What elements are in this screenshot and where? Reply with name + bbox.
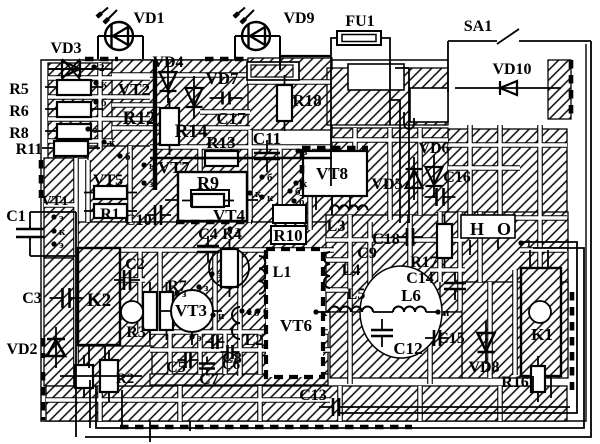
relay K1 body box (521, 268, 561, 376)
svg-text:VT3: VT3 (175, 301, 207, 320)
wire K2 bottom leads (89, 345, 122, 428)
wire left outer (75, 212, 77, 437)
node dashed VT8 left edge (300, 150, 305, 196)
svg-text:VT2: VT2 (118, 80, 150, 99)
svg-text:6: 6 (263, 306, 269, 318)
svg-text:з: з (303, 146, 308, 158)
resistor R16 body (531, 366, 545, 392)
island top-left block (48, 63, 150, 158)
svg-text:1: 1 (247, 306, 253, 318)
svg-text:VD8: VD8 (468, 359, 499, 376)
capacitor C13 (319, 398, 353, 416)
svg-text:VD7: VD7 (205, 69, 239, 88)
svg-text:R1: R1 (100, 206, 120, 223)
inductor L6 (393, 307, 426, 312)
svg-text:C16: C16 (443, 169, 471, 186)
wire C1 bracket (30, 212, 76, 256)
svg-text:VT1: VT1 (42, 194, 68, 209)
wire center band bar (150, 157, 332, 159)
LED VD1 (97, 8, 133, 51)
svg-text:б: б (101, 97, 107, 109)
wire R2 row (60, 375, 142, 377)
svg-text:VT6: VT6 (280, 316, 312, 335)
svg-text:з: з (93, 124, 98, 136)
node pin и (210, 312, 215, 317)
svg-text:VD10: VD10 (492, 61, 531, 78)
svg-text:R16: R16 (501, 374, 529, 391)
resistor R17 body (437, 224, 452, 258)
capacitor C12 white zone (360, 266, 442, 358)
node dashed left edge A (39, 160, 44, 198)
svg-text:э: э (197, 332, 202, 344)
wire board outline (41, 44, 586, 421)
island center band (88, 146, 332, 222)
node pin з (295, 148, 300, 153)
svg-text:FU1: FU1 (345, 13, 374, 30)
svg-text:C14: C14 (406, 270, 434, 287)
svg-text:VD5: VD5 (371, 176, 402, 193)
island VT2 VD4 block (112, 60, 252, 148)
island HO block (440, 212, 568, 312)
svg-text:к: к (301, 178, 308, 190)
LED VD9 (234, 8, 270, 51)
svg-text:VD4: VD4 (152, 54, 183, 71)
wire K1 top leads (530, 250, 548, 268)
svg-text:C2: C2 (125, 256, 145, 273)
svg-text:R5: R5 (9, 81, 29, 98)
svg-text:R3: R3 (126, 324, 146, 341)
svg-text:R18: R18 (292, 91, 321, 110)
island right mid block (448, 129, 567, 218)
svg-text:VD1: VD1 (133, 10, 164, 27)
wire inner verticals (390, 68, 409, 223)
node pin к (313, 309, 318, 314)
resistor R3a body (143, 292, 157, 330)
svg-text:C13: C13 (299, 387, 327, 404)
svg-text:к: к (255, 188, 262, 200)
svg-text:R13: R13 (206, 133, 235, 152)
svg-text:C4: C4 (198, 226, 218, 243)
svg-text:и: и (218, 310, 225, 322)
svg-text:C15: C15 (437, 330, 465, 347)
node dashed over VT8 (302, 146, 368, 151)
transistor VT4 body (191, 190, 229, 206)
node pin з (196, 284, 201, 289)
svg-text:C1: C1 (6, 208, 26, 225)
diode VD6 (426, 155, 443, 198)
wire VD9 to FU1 (281, 55, 331, 57)
transistor VT3 circle (171, 290, 213, 332)
resistor VT5r body (94, 186, 127, 199)
island R2 zone (76, 346, 152, 386)
wire J hook (404, 112, 414, 129)
island left column lower (44, 258, 74, 386)
node dashed right top (569, 60, 574, 119)
resistor R14 body (160, 108, 179, 145)
svg-text:з: з (235, 224, 240, 236)
capacitor C3 (50, 288, 83, 308)
wire HO leads (470, 240, 498, 255)
wire FU1 right lead (381, 38, 390, 125)
capacitor C15 (425, 330, 449, 346)
resistor R8 body (57, 124, 91, 139)
node pin к (51, 228, 56, 233)
resistor R9b body (192, 194, 224, 207)
resistor R18 body (277, 85, 292, 121)
resistor R11 body (54, 141, 88, 156)
svg-text:L3: L3 (327, 218, 346, 235)
svg-text:VD3: VD3 (50, 40, 81, 57)
resistor R13 body (205, 151, 238, 166)
svg-text:C17: C17 (216, 109, 246, 128)
inductor L2 (232, 307, 240, 339)
node dashed left edge B (41, 338, 46, 358)
node pin к (247, 190, 252, 195)
island FU1 surround (327, 68, 448, 125)
svg-text:R9: R9 (197, 173, 219, 193)
svg-text:R6: R6 (9, 103, 29, 120)
fuse FU1 (337, 31, 381, 45)
node FU1 white pocket A (348, 64, 404, 90)
wire channel gap edges (44, 63, 567, 421)
capacitor C10 (145, 205, 171, 225)
resistor R10 upper pad (273, 205, 306, 223)
resistor R2a body (75, 365, 93, 388)
node dashed bottom (120, 425, 412, 430)
svg-text:L1: L1 (273, 264, 292, 281)
wire VD1 leads (98, 36, 143, 59)
capacitor C5 (178, 352, 199, 368)
svg-text:О: О (497, 219, 511, 239)
island band above K2 (76, 222, 334, 250)
svg-text:VT8: VT8 (316, 164, 348, 183)
wire K1 bottom leads (533, 376, 551, 398)
svg-text:L2: L2 (245, 332, 264, 349)
svg-text:б: б (295, 186, 301, 198)
diode VD2 (47, 327, 65, 368)
capacitor C14 (444, 272, 466, 300)
svg-text:VD6: VD6 (418, 140, 449, 157)
island bottom strip (46, 386, 567, 421)
node H O lamp (461, 215, 515, 238)
resistor R1 body (94, 204, 127, 218)
svg-text:э: э (59, 239, 64, 251)
island center-right block (326, 215, 466, 312)
node FU1 white pocket B (410, 88, 448, 122)
node pin к (141, 162, 146, 167)
svg-text:2: 2 (99, 62, 105, 74)
svg-text:Н: Н (470, 219, 484, 239)
wire VD3 to grid (92, 68, 112, 70)
node pin б (291, 198, 296, 203)
svg-text:R8: R8 (9, 125, 29, 142)
capacitor C1 (16, 226, 44, 240)
diode VD3 (48, 59, 92, 79)
svg-text:к: к (109, 137, 116, 149)
capacitor C17 (210, 92, 243, 105)
node pin з (141, 180, 146, 185)
svg-text:L5: L5 (347, 286, 366, 303)
node pin и (435, 309, 440, 314)
svg-text:з: з (204, 282, 209, 294)
node pin 1 (239, 308, 244, 313)
wire bottom stub B (189, 421, 191, 431)
node dashed left edge C (41, 372, 46, 420)
svg-text:R10: R10 (273, 226, 302, 245)
island left column upper (44, 158, 76, 258)
node pin э (51, 214, 56, 219)
svg-text:1: 1 (526, 238, 532, 250)
resistor R3b body (160, 292, 173, 330)
svg-text:L4: L4 (342, 262, 361, 279)
capacitor C11 (254, 140, 280, 172)
transistor VT8 body box (303, 151, 367, 196)
svg-text:R12: R12 (123, 108, 156, 129)
transistor circle around R4 (209, 248, 249, 288)
svg-text:SA1: SA1 (464, 18, 492, 35)
node pin к (293, 180, 298, 185)
svg-text:к: к (321, 307, 328, 319)
island right top bar (548, 60, 571, 119)
island VT8 surround (332, 128, 448, 220)
capacitor C2 (114, 270, 140, 290)
diode VD10 (455, 81, 561, 95)
svg-text:з: з (182, 288, 187, 300)
svg-text:R11: R11 (16, 141, 43, 158)
node dashed top-mid (205, 57, 250, 62)
svg-text:C5: C5 (166, 359, 186, 376)
node pin з (227, 226, 232, 231)
node pin б (246, 309, 251, 314)
resistor R10 body box (271, 226, 306, 244)
node pin к (93, 80, 98, 85)
wire R9 leads (165, 199, 258, 201)
op-amp R9 body box (178, 172, 247, 221)
wire VD1 thick drop (153, 60, 157, 190)
wire bottom stub A (149, 421, 151, 442)
wire FU1 left lead (331, 38, 337, 186)
island K1 zone (462, 282, 568, 378)
svg-text:к: к (149, 160, 156, 172)
inductor L1 (259, 256, 265, 294)
capacitor C12 (371, 319, 393, 347)
node pin б (117, 153, 122, 158)
island R18 pad block (248, 58, 332, 130)
wire bottom inner (89, 380, 91, 428)
relay K2 circle (121, 301, 143, 323)
wire VT3 leads (160, 311, 222, 345)
resistor R4 body (221, 249, 238, 287)
svg-text:VD9: VD9 (283, 10, 314, 27)
inductor L5 (329, 307, 373, 312)
node pin б (259, 174, 264, 179)
relay K1 circle (529, 301, 551, 323)
resistor R5 body (57, 80, 91, 95)
node pin з (174, 290, 179, 295)
node pin к (101, 139, 106, 144)
svg-text:и: и (443, 307, 450, 319)
svg-text:C6: C6 (222, 357, 241, 373)
node pin з (85, 126, 90, 131)
svg-text:VD2: VD2 (6, 341, 37, 358)
svg-text:K1: K1 (531, 325, 553, 344)
wire C13 lead long (350, 406, 570, 408)
svg-text:C12: C12 (393, 339, 422, 358)
node dashed right low (570, 292, 575, 390)
wire channel gaps (44, 63, 567, 421)
svg-text:VT4: VT4 (213, 206, 246, 225)
node pin 1 (518, 240, 523, 245)
svg-text:б: б (267, 172, 273, 184)
transistor VT6 dashed body (266, 249, 323, 377)
node dashed top-left (85, 57, 118, 62)
svg-text:R14: R14 (175, 121, 208, 142)
diode VD8 (478, 321, 495, 364)
svg-text:C11: C11 (253, 129, 281, 148)
svg-text:VT7: VT7 (158, 158, 191, 177)
node pin э (51, 241, 56, 246)
svg-text:к: к (59, 226, 66, 238)
island bottom-center band (150, 332, 328, 374)
resistor R6 body (57, 102, 91, 117)
svg-text:C3: C3 (22, 290, 42, 307)
node pin 2 (91, 64, 96, 69)
node pin э (189, 334, 194, 339)
diode VD5 (406, 157, 423, 200)
svg-text:L6: L6 (401, 286, 421, 305)
diode VD7 (186, 76, 203, 119)
wire right outer 2 (96, 248, 584, 428)
island C12 lower zone (330, 312, 462, 378)
svg-text:C9: C9 (357, 245, 377, 262)
capacitor C7 (199, 357, 215, 376)
inductor L4 (324, 252, 330, 288)
node pin к (259, 194, 264, 199)
capacitor C6 (221, 345, 240, 359)
svg-text:к: к (101, 78, 108, 90)
capacitor C8 (206, 335, 225, 349)
node dashed under VT4 (176, 220, 252, 225)
wire right outer 1 (85, 41, 591, 437)
svg-text:э: э (217, 269, 222, 281)
svg-text:к: к (267, 192, 274, 204)
inductor L3 (330, 205, 368, 210)
svg-text:R2: R2 (116, 371, 134, 387)
node pad above R18 (247, 62, 299, 80)
node pin б (93, 99, 98, 104)
svg-text:з: з (149, 178, 154, 190)
wire VD9 drop (279, 59, 281, 70)
svg-text:C10: C10 (124, 212, 152, 229)
svg-text:VT5: VT5 (93, 172, 123, 189)
node pin 6 (255, 308, 260, 313)
switch SA1 (448, 29, 591, 92)
capacitor C16 (425, 188, 456, 206)
node pin б (287, 188, 292, 193)
island center-left block (118, 250, 266, 376)
svg-text:R17: R17 (410, 254, 438, 271)
diode VD4 (160, 60, 177, 103)
wire right outer 3 (340, 242, 577, 413)
svg-text:C7: C7 (199, 371, 219, 388)
wire VD9 leads (235, 36, 280, 59)
svg-text:э: э (59, 212, 64, 224)
resistor R2b body (100, 360, 118, 392)
wire VT8 bottom leads (316, 196, 350, 215)
relay K2 body box (78, 248, 120, 345)
svg-text:б: б (125, 151, 131, 163)
island thin mid strip (150, 374, 328, 385)
capacitor C18 (397, 228, 423, 246)
svg-text:K2: K2 (87, 290, 111, 311)
node pin э (209, 271, 214, 276)
capacitor C4 (197, 236, 219, 262)
